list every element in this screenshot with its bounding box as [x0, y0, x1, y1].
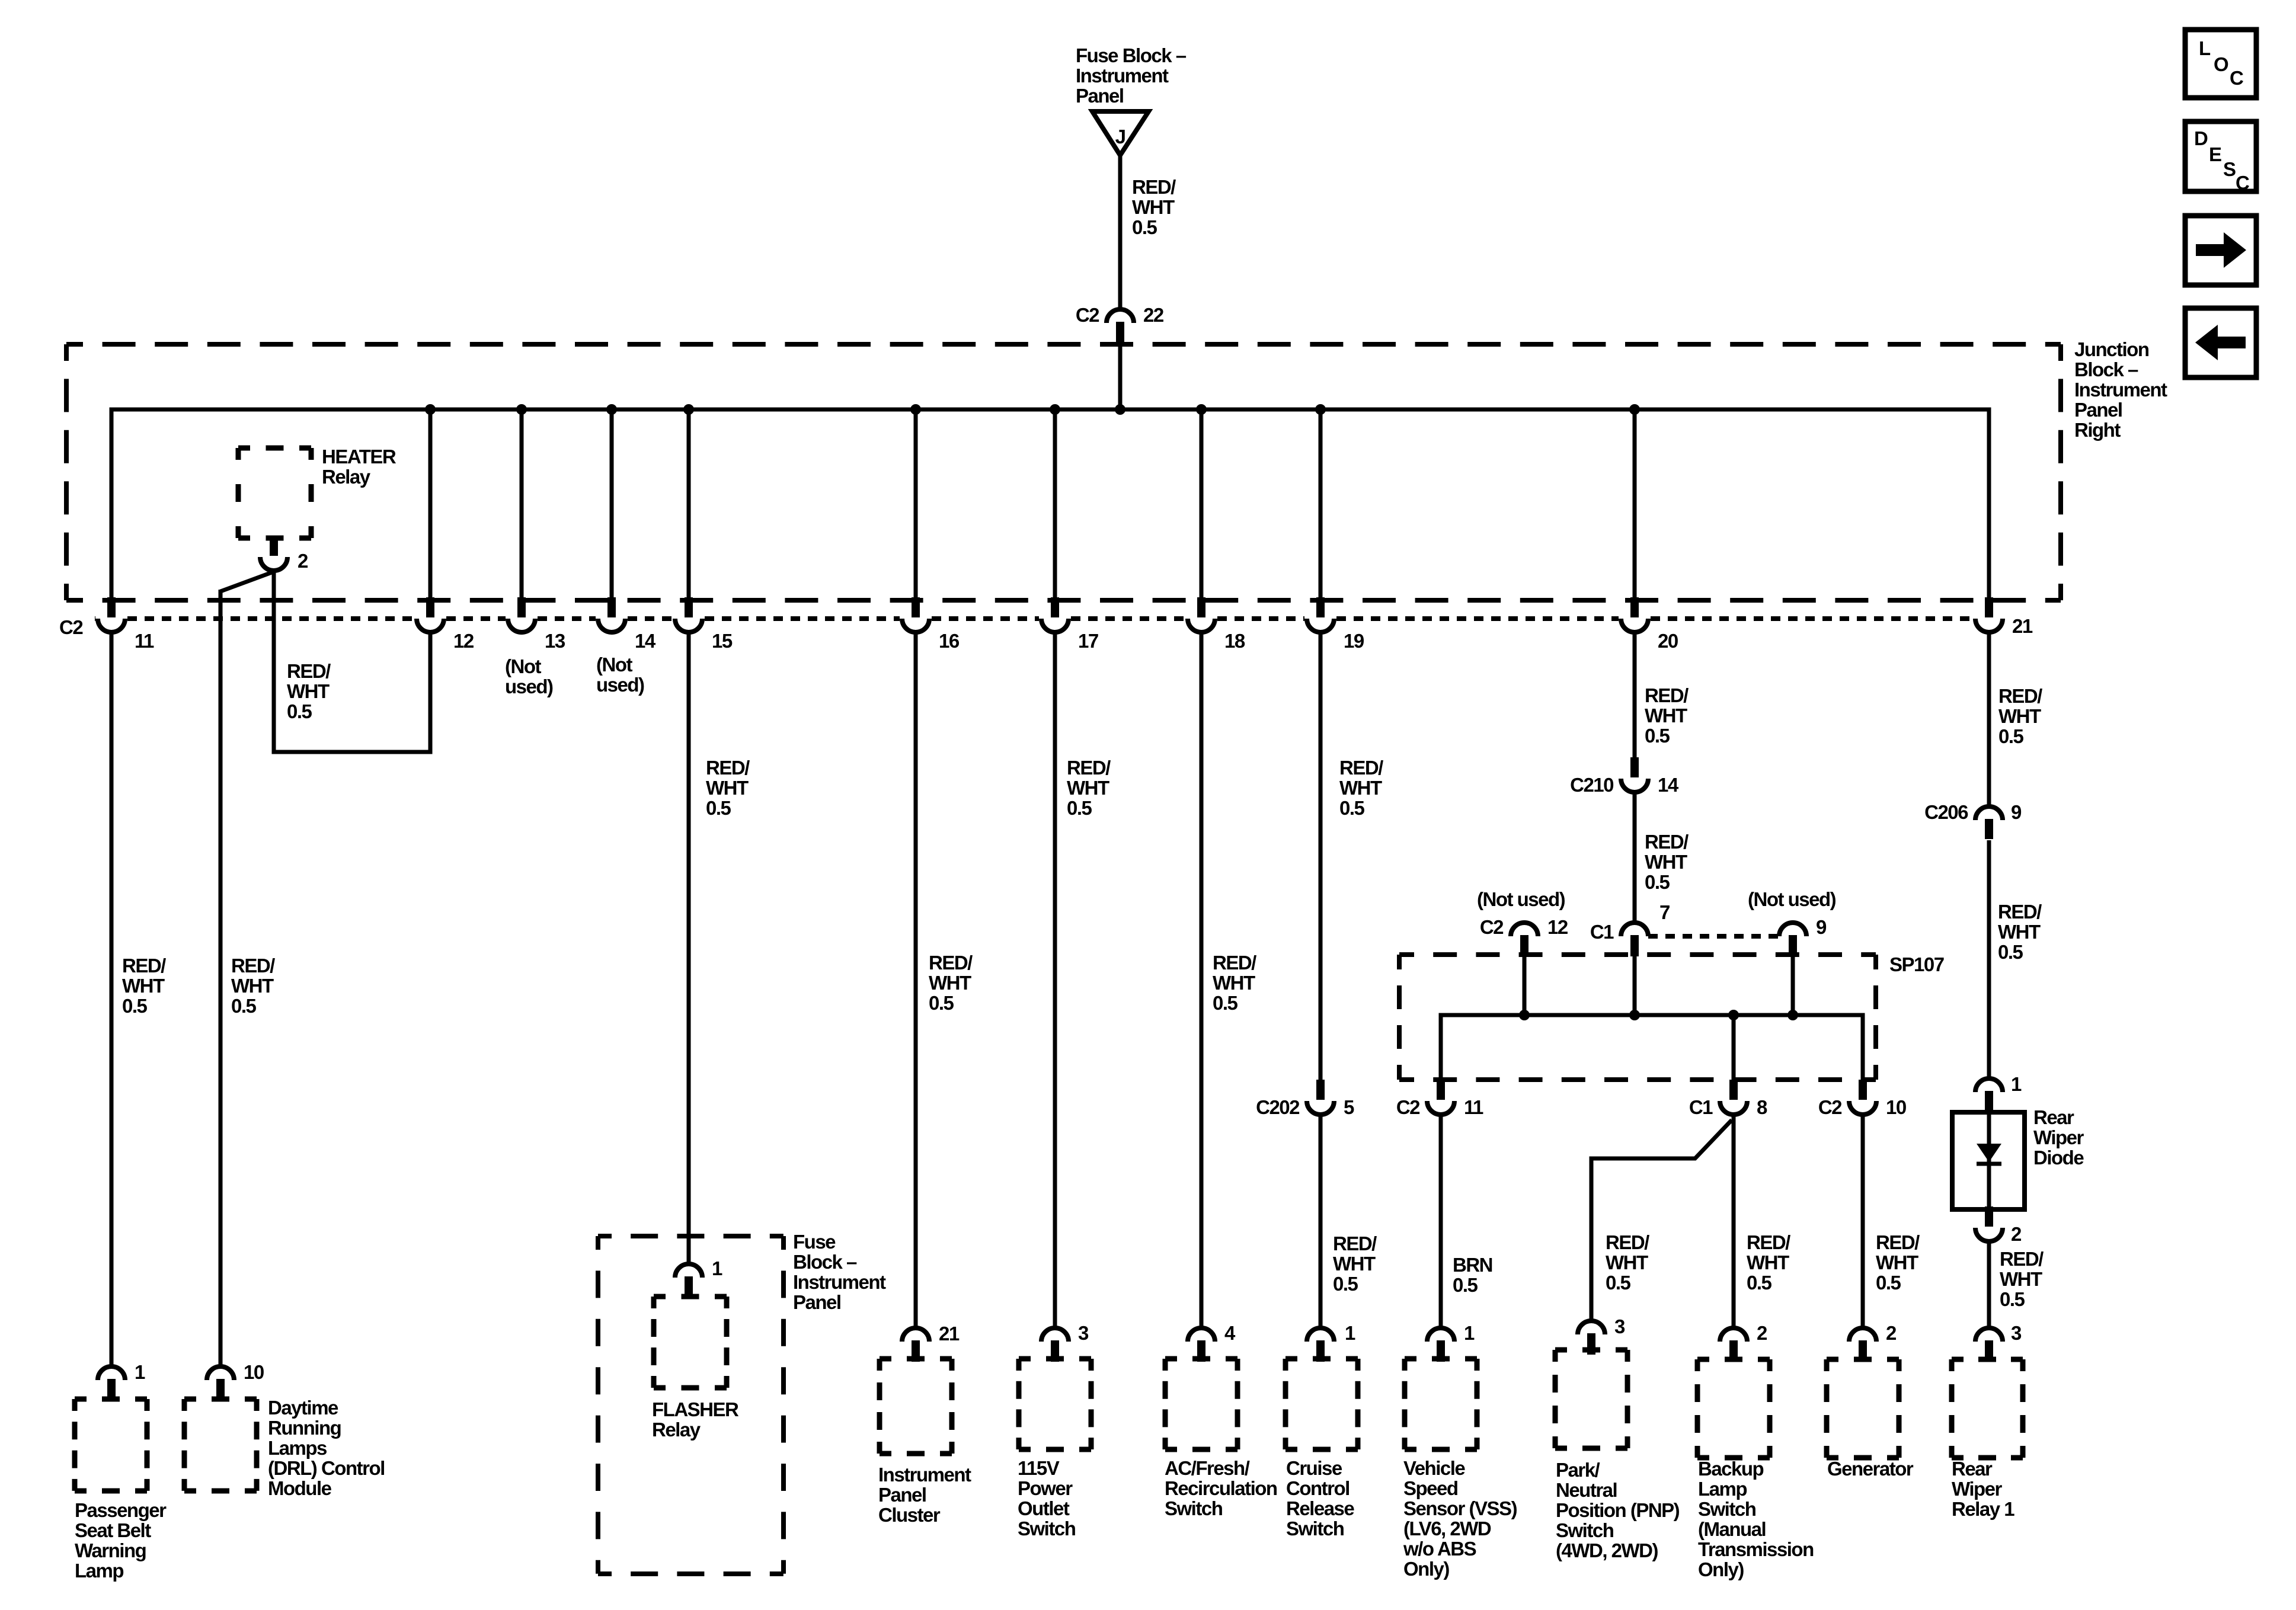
svg-text:12: 12	[453, 630, 474, 652]
svg-text:1: 1	[712, 1257, 722, 1279]
wire heater pin 2 branch diagonal to DRL drop	[220, 571, 275, 591]
svg-text:5: 5	[1344, 1096, 1354, 1118]
wire pin 19 to C202	[1319, 634, 1323, 1081]
junction dot pin 14	[606, 404, 617, 415]
connector pin 9 (not used)	[1779, 923, 1806, 956]
wire C2 pin 12 to SP107 bus	[1523, 956, 1527, 1015]
wire heater pin 2 to DRL control module	[219, 590, 223, 1366]
icon box arrow left	[2185, 308, 2256, 377]
svg-text:9: 9	[1816, 916, 1827, 938]
wire fuse block J to connector C2 pin 22	[1118, 155, 1123, 309]
svg-text:C210: C210	[1570, 774, 1613, 796]
junction dot pin 17	[1050, 404, 1060, 415]
connector C2 pin 16	[902, 597, 929, 632]
svg-text:12: 12	[1547, 916, 1568, 938]
icon box arrow right	[2185, 216, 2256, 285]
svg-text:1: 1	[135, 1361, 145, 1383]
park neutral position PNP switch (dashed box)	[1555, 1350, 1627, 1448]
wire SP107 to C2 pin 11 (VSS)	[1439, 1015, 1443, 1081]
connector pin 1 rear wiper diode	[1975, 1078, 2003, 1112]
svg-text:14: 14	[635, 630, 656, 652]
fuse block - instrument panel (dashed box)	[598, 1236, 784, 1574]
svg-text:11: 11	[135, 630, 154, 652]
wire bus to pin 19	[1319, 409, 1323, 600]
svg-text:J: J	[1115, 126, 1125, 148]
connector C2 pin 17	[1041, 597, 1069, 632]
115V power outlet switch (dashed box)	[1019, 1359, 1091, 1449]
svg-text:1: 1	[1464, 1322, 1475, 1344]
dotted connector row line C2	[95, 616, 95, 621]
wire pin 12 below connector	[428, 634, 433, 752]
wire C2 pin 22 to bus	[1118, 341, 1123, 409]
svg-text:10: 10	[244, 1361, 264, 1383]
svg-text:(Not used): (Not used)	[1748, 888, 1836, 910]
svg-text:3: 3	[1614, 1315, 1625, 1337]
icon box DESC	[2185, 121, 2256, 194]
vehicle speed sensor VSS (dashed box)	[1405, 1359, 1477, 1449]
wire through rear wiper diode	[1987, 1112, 1991, 1211]
svg-text:C2: C2	[59, 616, 83, 638]
bus wire inside junction block	[111, 409, 1989, 598]
svg-text:22: 22	[1143, 304, 1164, 326]
junction dot SP107 C2 12	[1519, 1010, 1530, 1020]
connector C2 pin 12 (not used)	[1511, 923, 1538, 956]
connector C210 pin 14	[1621, 757, 1648, 792]
junction block - instrument panel right (dashed outline)	[66, 344, 2061, 600]
wire C1 pin 7 into SP107	[1633, 956, 1637, 1015]
junction dot pin 16	[910, 404, 921, 415]
wire heater pin 2 to pin 12 (down, right, up)	[274, 572, 430, 752]
svg-text:SP107: SP107	[1889, 953, 1944, 975]
junction dot pin 12	[425, 404, 436, 415]
connector pin 4 AC switch	[1188, 1328, 1215, 1362]
connector pin 3 PNP switch	[1578, 1321, 1605, 1355]
junction dot SP107 C1 7	[1629, 1010, 1640, 1020]
svg-text:15: 15	[712, 630, 733, 652]
svg-text:3: 3	[1078, 1322, 1089, 1344]
connector C2 pin 20	[1621, 597, 1648, 632]
svg-text:C206: C206	[1924, 801, 1968, 823]
wire pin 16 to instrument panel cluster	[914, 634, 918, 1327]
icon box LOC	[2185, 30, 2256, 98]
wire bus to pin 15	[687, 409, 691, 600]
wire C2 pin 10 to generator	[1861, 1116, 1865, 1327]
svg-text:2: 2	[298, 550, 308, 572]
svg-text:C2: C2	[1076, 304, 1099, 326]
svg-text:13: 13	[545, 630, 565, 652]
connector C206 pin 9	[1975, 806, 2003, 839]
connector C1 pin 7	[1621, 923, 1648, 956]
wire pin 17 to 115V power outlet switch	[1053, 634, 1057, 1327]
wire C1 pin 8 to backup lamp switch	[1732, 1116, 1736, 1327]
svg-text:1: 1	[2011, 1073, 2022, 1095]
connector pin 2 rear wiper diode	[1975, 1206, 2003, 1241]
connector heater relay pin 2	[260, 536, 287, 571]
junction dot SP107 C1 8	[1728, 1010, 1739, 1020]
svg-text:19: 19	[1344, 630, 1364, 652]
connector pin 1 VSS	[1427, 1328, 1454, 1362]
wire pin 11 to passenger seat belt warning lamp	[110, 634, 114, 1366]
svg-text:8: 8	[1757, 1096, 1767, 1118]
wire pin 20 to C210	[1633, 634, 1637, 758]
wire C206 to rear wiper diode	[1987, 840, 1991, 1078]
wire bus to pin 16	[914, 409, 918, 600]
diode symbol	[1977, 1144, 2001, 1164]
backup lamp switch (dashed box)	[1697, 1359, 1770, 1458]
daytime running lamps DRL control module (dashed box)	[184, 1399, 257, 1491]
wire pin 21 to C206	[1987, 634, 1991, 806]
svg-text:16: 16	[939, 630, 960, 652]
connector C2 pin 15	[675, 597, 702, 632]
svg-text:20: 20	[1658, 630, 1678, 652]
svg-text:C2: C2	[1396, 1096, 1420, 1118]
connector C1 pin 8	[1720, 1080, 1747, 1115]
SP107 internal bus	[1441, 1015, 1863, 1082]
svg-text:C2: C2	[1480, 916, 1504, 938]
wire SP107 bus to C1 pin 8	[1732, 1015, 1736, 1081]
generator (dashed box)	[1827, 1359, 1899, 1458]
wire C202 to cruise control release switch	[1319, 1116, 1323, 1327]
wire pin 15 to flasher relay	[687, 634, 691, 1263]
connector C2 pin 10	[1849, 1080, 1876, 1115]
wire C210 to C1 pin 7	[1633, 794, 1637, 922]
connector pin 1 seat belt lamp	[98, 1366, 125, 1400]
wire bus to pin 13	[520, 409, 524, 600]
svg-text:21: 21	[939, 1323, 960, 1345]
svg-text:L: L	[2199, 37, 2211, 59]
instrument panel cluster (dashed box)	[880, 1359, 952, 1454]
connector pin 3 power outlet switch	[1041, 1328, 1069, 1362]
svg-text:C: C	[2236, 172, 2249, 194]
svg-text:S: S	[2223, 158, 2236, 180]
wire pin 9 to SP107 bus	[1791, 956, 1795, 1015]
svg-text:17: 17	[1078, 630, 1098, 652]
junction dot pin 13	[516, 404, 527, 415]
connector pin 2 backup lamp switch	[1720, 1328, 1747, 1362]
cruise control release switch (dashed box)	[1285, 1359, 1358, 1449]
connector C2 pin 19	[1307, 597, 1334, 632]
connector C2 pin 11 (VSS)	[1427, 1080, 1454, 1115]
svg-text:1: 1	[1345, 1322, 1355, 1344]
junction dot pin 18	[1196, 404, 1207, 415]
wire C1 pin 8 branch to PNP switch	[1591, 1120, 1732, 1320]
connector pin 1 flasher relay	[675, 1264, 702, 1297]
wire bus to pin 20	[1633, 409, 1637, 600]
connector C202 pin 5	[1307, 1080, 1334, 1115]
connector C2 pin 13	[508, 597, 535, 632]
svg-text:10: 10	[1886, 1096, 1906, 1118]
heater relay pin 2 stub	[270, 538, 278, 553]
svg-text:D: D	[2194, 127, 2208, 149]
svg-text:2: 2	[1757, 1322, 1767, 1344]
junction dot SP107 pin 9	[1787, 1010, 1798, 1020]
connector C2 pin 18	[1188, 597, 1215, 632]
AC fresh recirculation switch (dashed box)	[1165, 1359, 1237, 1449]
rear wiper diode pin 2 stub	[1985, 1209, 1993, 1225]
svg-text:C1: C1	[1689, 1096, 1713, 1118]
wire SP107 to C2 pin 10	[1861, 1015, 1865, 1081]
svg-text:3: 3	[2011, 1322, 2022, 1344]
svg-text:C: C	[2230, 67, 2243, 89]
svg-text:O: O	[2214, 53, 2228, 75]
svg-text:18: 18	[1224, 630, 1245, 652]
connector pin 2 generator	[1849, 1328, 1876, 1362]
connector pin 10 DRL module	[207, 1366, 234, 1400]
dotted line between C1 pin 7 and pin 9	[1648, 934, 1779, 939]
connector C2 pin 22	[1107, 309, 1134, 343]
wire bus to pin 14	[610, 409, 614, 600]
svg-text:C202: C202	[1256, 1096, 1300, 1118]
connector C2 pin 21	[1975, 597, 2003, 632]
rear wiper relay 1 (dashed box)	[1952, 1359, 2023, 1458]
FLASHER relay (dashed box)	[654, 1297, 727, 1388]
svg-text:21: 21	[2012, 615, 2033, 637]
svg-text:9: 9	[2011, 801, 2022, 823]
wire bus to pin 12	[428, 409, 433, 600]
svg-text:2: 2	[2011, 1223, 2022, 1245]
connector C2 pin 11	[98, 597, 125, 632]
HEATER relay (dashed box)	[238, 448, 311, 538]
wire pin 18 to AC fresh recirculation switch	[1200, 634, 1204, 1327]
rear wiper diode (solid box)	[1952, 1112, 2025, 1209]
junction dot pin 20	[1629, 404, 1640, 415]
svg-text:(Not used): (Not used)	[1477, 888, 1565, 910]
connector C2 pin 12	[417, 597, 444, 632]
junction dot C2 22 feed	[1115, 404, 1125, 415]
wire bus to pin 18	[1200, 409, 1204, 600]
passenger seat belt warning lamp (dashed box)	[75, 1399, 147, 1491]
svg-text:4: 4	[1224, 1322, 1236, 1344]
svg-text:Generator: Generator	[1827, 1458, 1914, 1480]
svg-text:C2: C2	[1818, 1096, 1842, 1118]
junction dot pin 15	[683, 404, 694, 415]
junction dot pin 19	[1315, 404, 1326, 415]
splice pack SP107 (dashed box)	[1399, 955, 1876, 1080]
svg-text:2: 2	[1886, 1322, 1897, 1344]
svg-text:E: E	[2209, 143, 2221, 165]
connector pin 3 rear wiper relay 1	[1975, 1328, 2003, 1362]
svg-text:11: 11	[1464, 1096, 1483, 1118]
wire bus to pin 17	[1053, 409, 1057, 600]
svg-text:7: 7	[1659, 901, 1670, 923]
connector C2 pin 14	[598, 597, 625, 632]
connector pin 1 cruise control release switch	[1307, 1328, 1334, 1362]
wire diode pin 2 to rear wiper relay	[1987, 1243, 1991, 1327]
wire C2 pin 11 to VSS	[1439, 1116, 1443, 1327]
connector pin 21 instrument panel cluster	[902, 1328, 929, 1362]
fuse block triangle J symbol	[1092, 111, 1149, 155]
svg-text:14: 14	[1658, 774, 1679, 796]
svg-text:C1: C1	[1590, 921, 1614, 943]
